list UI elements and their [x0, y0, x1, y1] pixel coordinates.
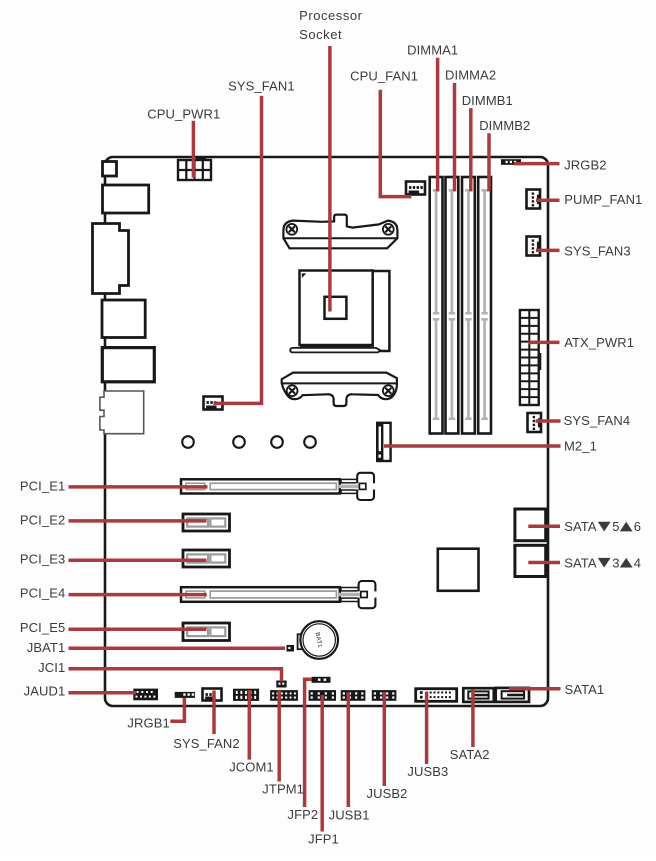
connector JCI1: [276, 681, 286, 688]
pointer line DIMMA1: [436, 58, 440, 192]
pointer line JFP1: [320, 695, 324, 832]
svg-text:JFP2: JFP2: [288, 807, 319, 822]
svg-text:JRGB1: JRGB1: [127, 715, 169, 730]
svg-text:JRGB2: JRGB2: [564, 158, 606, 173]
svg-text:5: 5: [612, 519, 619, 534]
pointer line PCI_E1: [69, 485, 208, 489]
svg-text:JUSB3: JUSB3: [407, 764, 448, 779]
connector PUMP_FAN1: [527, 190, 541, 209]
pointer line SATA2: [471, 689, 475, 747]
svg-text:JCOM1: JCOM1: [229, 759, 274, 774]
svg-text:JAUD1: JAUD1: [24, 684, 66, 699]
pointer line JRGB2: [514, 162, 560, 166]
connector JUSB1: [341, 690, 366, 701]
connector SYS_FAN1: [204, 397, 223, 410]
pointer line JFP2: [305, 679, 312, 807]
slot PCI_E4 (PCIe x16): [181, 581, 377, 608]
svg-text:CPU_FAN1: CPU_FAN1: [350, 68, 418, 83]
svg-text:PCI_E4: PCI_E4: [20, 586, 65, 601]
pointer line DIMMA2: [453, 83, 457, 191]
svg-text:PCI_E1: PCI_E1: [20, 478, 65, 493]
svg-text:SYS_FAN3: SYS_FAN3: [564, 243, 631, 258]
svg-text:DIMMB1: DIMMB1: [462, 93, 513, 108]
svg-text:PCI_E3: PCI_E3: [20, 552, 65, 567]
svg-text:Processor: Processor: [299, 8, 363, 23]
svg-text:JFP1: JFP1: [308, 832, 339, 847]
pointer line ATX_PWR1: [529, 341, 560, 345]
pointer line PCI_E5: [69, 628, 207, 632]
slot PCI_E1 (PCIe x16): [181, 473, 376, 500]
svg-text:JUSB2: JUSB2: [367, 786, 408, 801]
pointer line M2_1: [384, 444, 561, 448]
svg-text:PUMP_FAN1: PUMP_FAN1: [564, 192, 642, 207]
svg-text:JTPM1: JTPM1: [262, 781, 304, 796]
I/O port block 4: [102, 300, 145, 338]
DIMM slot DIMMB2: [478, 177, 491, 434]
CPU cooler bracket bottom: [282, 373, 397, 406]
svg-text:SATA1: SATA1: [565, 682, 605, 697]
CPU cooler bracket top: [283, 215, 397, 249]
pointer line JUSB3: [425, 692, 429, 764]
connector M2_1: [377, 423, 390, 461]
svg-text:PCI_E2: PCI_E2: [20, 513, 65, 528]
pointer line PCI_E2: [69, 519, 207, 523]
svg-text:SATA: SATA: [564, 519, 597, 534]
label SATA56: [564, 519, 641, 534]
connector JUSB3: [416, 689, 457, 702]
slot PCI_E5 (PCIe x1): [183, 623, 230, 641]
svg-text:DIMMA1: DIMMA1: [407, 43, 458, 58]
connector SYS_FAN4: [528, 413, 542, 432]
pointer line CPU_FAN1: [380, 90, 411, 197]
pointer line PUMP_FAN1: [536, 199, 560, 203]
pointer line JTPM1: [277, 690, 281, 782]
connector CPU_PWR1 (8-pin EPS): [178, 157, 211, 181]
pointer line JRGB1: [170, 698, 184, 721]
connector JRGB2: [501, 159, 521, 165]
SATA ports 3/4: [515, 545, 546, 576]
processor socket: [290, 271, 389, 353]
I/O port DVI: [93, 224, 129, 294]
svg-text:JBAT1: JBAT1: [27, 640, 66, 655]
pointer line CPU_PWR1: [192, 121, 196, 178]
svg-text:SATA: SATA: [564, 555, 597, 570]
mounting holes: [182, 436, 316, 448]
pointer line JUSB2: [383, 692, 387, 786]
battery BAT1: [298, 621, 338, 659]
pointer line JUSB1: [347, 692, 351, 807]
pointer line SATA56: [528, 525, 560, 529]
pointer line DIMMB1: [469, 108, 473, 191]
DIMM slot DIMMB1: [462, 177, 475, 434]
svg-text:JCI1: JCI1: [38, 660, 65, 675]
pointer line SATA1: [509, 687, 561, 691]
connector JFP2: [312, 677, 331, 683]
motherboard outline: [105, 157, 548, 706]
pointer line SYS_FAN3: [536, 249, 560, 253]
I/O port block 5: [102, 348, 154, 382]
svg-text:SYS_FAN4: SYS_FAN4: [564, 413, 631, 428]
pointer line DIMMB2: [487, 133, 491, 191]
svg-text:M2_1: M2_1: [564, 438, 597, 453]
svg-text:SATA2: SATA2: [450, 747, 490, 762]
jumper JBAT1: [287, 645, 295, 652]
I/O port PS2-small: [103, 162, 117, 177]
svg-text:ATX_PWR1: ATX_PWR1: [564, 335, 634, 350]
pointer line JAUD1: [69, 691, 137, 695]
svg-text:Socket: Socket: [299, 27, 342, 42]
SATA ports 5/6: [515, 509, 546, 541]
connector ATX_PWR1 (24-pin): [520, 310, 541, 405]
pointer line SYS_FAN2: [212, 691, 216, 735]
connector SYS_FAN3: [527, 237, 541, 256]
connector JCOM1: [233, 689, 259, 701]
pointer line SATA34: [528, 561, 560, 565]
svg-text:6: 6: [634, 519, 641, 534]
connector CPU_FAN1: [406, 182, 425, 195]
svg-text:CPU_PWR1: CPU_PWR1: [147, 106, 220, 121]
svg-text:SYS_FAN1: SYS_FAN1: [228, 78, 295, 93]
pointer line JCOM1: [248, 690, 252, 760]
svg-text:JUSB1: JUSB1: [329, 808, 370, 823]
svg-text:SYS_FAN2: SYS_FAN2: [173, 736, 240, 751]
connector SYS_FAN2: [203, 689, 222, 701]
pointer line SYS_FAN4: [536, 419, 561, 423]
I/O port block 2: [103, 185, 149, 213]
svg-text:DIMMB2: DIMMB2: [479, 118, 530, 133]
connector SATA2: [463, 688, 494, 702]
DIMM slot DIMMA2: [446, 177, 459, 434]
pointer line PCI_E3: [69, 558, 207, 562]
pointer line JCI1: [69, 669, 282, 682]
label SATA34: [564, 555, 641, 570]
pointer line PCI_E4: [69, 593, 207, 597]
connector JTPM1: [270, 690, 298, 701]
chipset: [438, 549, 479, 591]
slot PCI_E3 (PCIe x1): [183, 550, 230, 567]
svg-text:4: 4: [634, 555, 641, 570]
connector SATA1: [496, 688, 529, 702]
connector JAUD1: [133, 689, 158, 701]
pointer line Processor Socket: [328, 46, 332, 312]
I/O port LAN/USB gray: [100, 391, 144, 434]
pointer line JBAT1: [69, 647, 286, 651]
connector JRGB1: [175, 692, 195, 698]
DIMM slot DIMMA1: [430, 177, 443, 434]
svg-text:DIMMA2: DIMMA2: [445, 68, 496, 83]
svg-text:3: 3: [612, 555, 619, 570]
svg-text:PCI_E5: PCI_E5: [20, 620, 65, 635]
pointer line SYS_FAN1: [213, 96, 261, 404]
connector JFP1: [309, 690, 336, 701]
connector JUSB2: [372, 690, 397, 701]
slot PCI_E2 (PCIe x1): [183, 514, 230, 531]
